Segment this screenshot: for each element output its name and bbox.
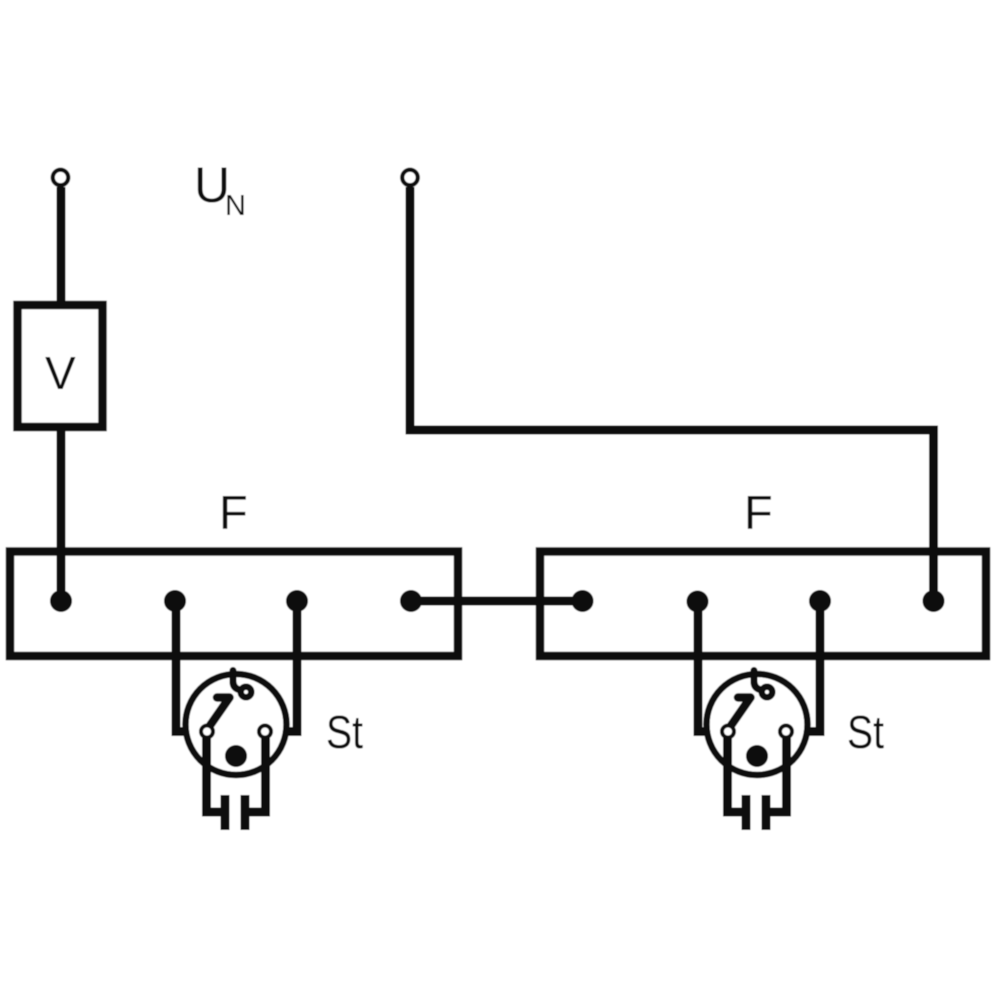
wire T1 to voltmeter [57, 187, 66, 303]
wire lamp F2 pin 3 to starter St2 right pin [794, 601, 820, 732]
svg-text:V: V [45, 347, 76, 399]
starter St1 right leg [245, 738, 266, 812]
starter St1 [186, 671, 287, 831]
label U_N [194, 157, 246, 222]
lamp F1 pin 3 node [286, 590, 308, 612]
lamp F2 pin 3 node [809, 590, 831, 612]
svg-text:St: St [847, 706, 884, 758]
fluorescent lamp F2 body [540, 552, 986, 657]
starter St2 right leg [766, 738, 787, 812]
lamp F1 pin 4 node [400, 590, 422, 612]
wire T2 to lamp F2 pin 4 [410, 187, 934, 598]
starter St1 capacitor dot [225, 745, 247, 767]
fluorescent lamp F1 body [10, 552, 458, 657]
starter St1 left prong [221, 795, 230, 830]
lamp F1 pin 2 node [164, 590, 186, 612]
terminal T2 (right supply terminal) [402, 170, 418, 186]
starter St2 right pin [780, 726, 792, 738]
lamp F2 pin 4 node [923, 590, 945, 612]
voltmeter V [18, 305, 103, 427]
starter St2 fixed electrode [754, 671, 772, 698]
starter St1 fixed electrode [233, 671, 251, 698]
starter St1 left leg [207, 738, 228, 812]
svg-text:F: F [744, 486, 773, 539]
svg-text:F: F [219, 486, 248, 539]
terminal T1 (left supply terminal) [53, 170, 69, 186]
wire lamp F1 pin 2 to starter St1 left pin [176, 601, 199, 732]
starter St2 left leg [728, 738, 749, 812]
wire voltmeter to lamp F1 pin 1 [57, 431, 66, 598]
starter St1 envelope circle [186, 674, 287, 775]
starter St2 right prong [762, 795, 771, 830]
starter St1 right pin [259, 726, 271, 738]
starter St2 [707, 671, 808, 831]
starter St2 envelope circle [707, 674, 808, 775]
starter St1 bimetal electrode [210, 698, 230, 726]
svg-text:St: St [326, 706, 363, 758]
wire lamp F1 pin 3 to starter St1 right pin [273, 601, 297, 732]
starter St1 right prong [241, 795, 250, 830]
starter St1 left pin [201, 726, 213, 738]
starter St2 left prong [742, 795, 751, 830]
wire lamp F2 pin 2 to starter St2 left pin [698, 601, 720, 732]
starter St2 bimetal electrode [731, 698, 751, 726]
lamp F2 pin 1 node [572, 590, 594, 612]
wire lamp F1 pin 4 to lamp F2 pin 1 [411, 597, 583, 606]
svg-text:N: N [225, 190, 246, 222]
starter St2 capacitor dot [746, 745, 768, 767]
starter St2 left pin [722, 726, 734, 738]
lamp F2 pin 2 node [687, 591, 709, 613]
lamp F1 pin 1 node [50, 590, 72, 612]
